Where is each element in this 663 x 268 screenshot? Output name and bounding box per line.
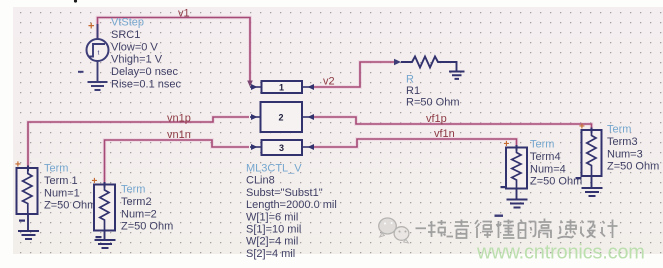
- CLin8 pin 2 (left of box 2): [250, 114, 260, 120]
- svg-text:Length=2000.0 mil: Length=2000.0 mil: [246, 199, 337, 211]
- svg-text:Term: Term: [121, 184, 145, 196]
- CLin8 parameter labels: [246, 163, 337, 260]
- svg-text:+: +: [15, 160, 21, 171]
- wire vf1p (CLin8 pin5 to Term3): [314, 117, 592, 130]
- coupled line CLin8 box section 3: [262, 140, 303, 155]
- stray navy dash artifact: [495, 215, 504, 217]
- node vn1p label: [167, 113, 191, 125]
- svg-text:3: 3: [279, 143, 284, 153]
- node v2 label: [323, 76, 335, 88]
- SRC1 minus polarity: [78, 71, 84, 73]
- Term4 plus polarity: [504, 139, 510, 150]
- ground below SRC1: [88, 82, 108, 90]
- wire v2 (CLin8 pin4 to R1): [314, 62, 394, 87]
- svg-text:R: R: [406, 74, 414, 86]
- Term2 plus polarity: [92, 176, 98, 187]
- svg-text:+: +: [504, 139, 510, 150]
- wire v2 arrowhead at R1: [394, 59, 401, 65]
- Term2 top pin tick: [104, 182, 106, 188]
- Term1 plus polarity: [15, 160, 21, 171]
- svg-text:Delay=0 nsec: Delay=0 nsec: [111, 66, 178, 78]
- svg-text:+: +: [88, 21, 94, 33]
- Term3 labels: [607, 124, 659, 173]
- node v1 label: [178, 8, 190, 20]
- svg-text:+: +: [92, 176, 98, 187]
- CLin8 pin 5 (right of box 2): [302, 114, 314, 120]
- termination Term3: [582, 130, 602, 176]
- svg-text:v2: v2: [323, 76, 335, 88]
- svg-text:Term 1: Term 1: [44, 175, 78, 187]
- svg-text:v1: v1: [178, 8, 190, 20]
- Term3 ground stem: [591, 176, 593, 187]
- Term4 labels: [530, 139, 582, 188]
- wire v1 (source top to CLin8 pin1): [98, 18, 251, 84]
- coupled line CLin8 box section 2: [261, 102, 303, 132]
- Term1 ground stem: [27, 214, 29, 230]
- CLin8 pin 4 (right of box 1): [302, 84, 314, 90]
- svg-text:R=50 Ohm: R=50 Ohm: [406, 97, 460, 109]
- svg-text:vn1n: vn1n: [167, 129, 191, 141]
- termination Term2: [94, 185, 115, 231]
- svg-text:www.cntronics.com: www.cntronics.com: [476, 242, 645, 264]
- termination Term4: [506, 148, 527, 189]
- wire vf1n (CLin8 pin6 to Term4): [314, 139, 517, 148]
- svg-text:SRC1: SRC1: [111, 29, 140, 41]
- svg-text:t: t: [98, 50, 100, 57]
- svg-text:Z=50 Ohm: Z=50 Ohm: [607, 161, 659, 173]
- stray black dot top edge: [74, 0, 77, 3]
- CLin8 pin 1 (left of box 1): [250, 84, 261, 90]
- node vf1n label: [434, 128, 455, 140]
- Term1 top pin tick: [27, 166, 29, 172]
- svg-text:vf1n: vf1n: [434, 128, 455, 140]
- svg-text:Term2: Term2: [121, 196, 152, 208]
- svg-text:Vhigh=1 V: Vhigh=1 V: [111, 54, 163, 66]
- svg-text:Z=50 Ohm: Z=50 Ohm: [44, 200, 96, 212]
- Term2 minus polarity: [96, 236, 102, 238]
- watermark wechat icon: [379, 218, 409, 243]
- svg-text:Z=50 Ohm: Z=50 Ohm: [530, 176, 582, 188]
- svg-text:Term: Term: [44, 163, 68, 175]
- svg-text:W[2]=4 mil: W[2]=4 mil: [246, 236, 298, 248]
- wire vn1p (Term1 to CLin8 pin2): [28, 117, 249, 168]
- svg-text:vn1p: vn1p: [167, 113, 191, 125]
- svg-text:R1: R1: [406, 85, 420, 97]
- ground below Term1: [18, 231, 39, 239]
- svg-text:Subst="Subst1": Subst="Subst1": [246, 187, 323, 199]
- ground below Term4: [507, 200, 528, 208]
- R1 labels: [406, 74, 460, 109]
- Term4 minus polarity: [501, 186, 507, 188]
- svg-text:Term4: Term4: [530, 151, 561, 163]
- svg-text:1: 1: [279, 83, 284, 93]
- svg-text:W[1]=6 mil: W[1]=6 mil: [246, 211, 298, 223]
- termination Term1: [17, 168, 38, 214]
- SRC1 plus polarity: [88, 21, 94, 33]
- svg-text:+: +: [579, 122, 585, 133]
- Term1 minus polarity: [19, 220, 25, 222]
- Term2 ground stem: [104, 231, 106, 240]
- svg-text:2: 2: [279, 113, 284, 123]
- Term2 labels: [121, 184, 173, 233]
- watermark chinese text: [416, 219, 618, 239]
- svg-text:ML3CTL_V: ML3CTL_V: [246, 163, 302, 175]
- svg-text:vf1p: vf1p: [426, 113, 447, 125]
- ground at R1: [449, 72, 465, 79]
- svg-text:Num=2: Num=2: [121, 208, 157, 220]
- svg-text:CLin8: CLin8: [246, 175, 275, 187]
- svg-text:Term: Term: [530, 139, 554, 151]
- ground below Term2: [95, 240, 116, 248]
- svg-text:Num=1: Num=1: [44, 187, 80, 199]
- svg-text:VtStep: VtStep: [111, 17, 144, 29]
- ground below Term3: [582, 188, 603, 196]
- wire v1 arrowhead at pin 1: [247, 81, 253, 88]
- svg-text:Z=50 Ohm: Z=50 Ohm: [121, 221, 173, 233]
- coupled line CLin8 box section 1: [262, 81, 303, 93]
- svg-text:Num=3: Num=3: [607, 148, 643, 160]
- svg-text:Term3: Term3: [607, 136, 638, 148]
- voltage source SRC1 symbol: [87, 24, 109, 81]
- Term3 top pin tick: [591, 128, 593, 134]
- CLin8 pin 6 (right of box 3): [302, 144, 314, 150]
- node vf1p label: [426, 113, 447, 125]
- Term4 top pin tick: [516, 145, 518, 151]
- Term4 ground stem: [516, 189, 518, 199]
- Term3 minus polarity: [576, 177, 582, 179]
- svg-text:S[1]=10 mil: S[1]=10 mil: [246, 224, 301, 236]
- svg-text:S[2]=4 mil: S[2]=4 mil: [246, 248, 295, 260]
- svg-text:Rise=0.1 nsec: Rise=0.1 nsec: [111, 79, 182, 91]
- SRC1 labels: [111, 17, 182, 91]
- Term1 labels: [44, 163, 96, 212]
- resistor R1: [401, 57, 457, 71]
- Term3 plus polarity: [579, 122, 585, 133]
- svg-text:Vlow=0 V: Vlow=0 V: [111, 41, 158, 53]
- wire vn1n (Term2 to CLin8 pin3): [105, 140, 250, 185]
- svg-text:Term: Term: [607, 124, 631, 136]
- watermark url text: [476, 242, 645, 264]
- CLin8 pin 3 (left of box 3): [250, 144, 261, 150]
- node vn1n label: [167, 129, 191, 141]
- svg-text:Num=4: Num=4: [530, 163, 566, 175]
